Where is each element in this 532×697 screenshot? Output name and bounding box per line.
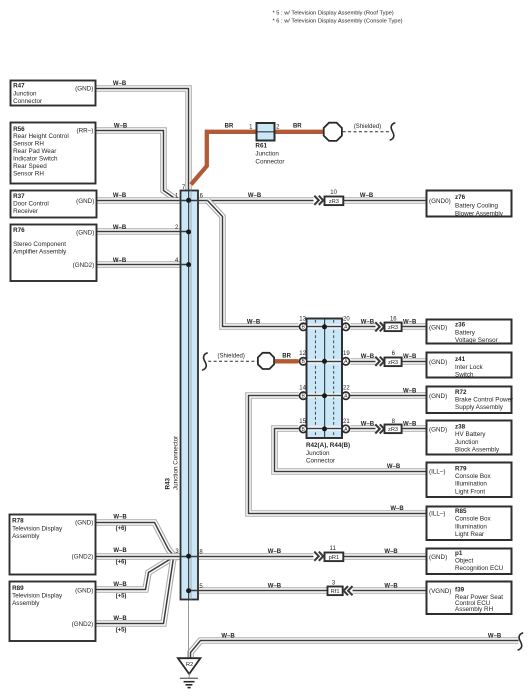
svg-text:Brake Control Power: Brake Control Power (455, 397, 513, 404)
svg-text:R79: R79 (455, 465, 467, 472)
wire pin 4 stub across R43 bus (180, 264, 189, 266)
svg-text:W–B: W–B (403, 422, 417, 428)
svg-text:zR3: zR3 (388, 325, 398, 331)
svg-text:* 5 : w/ Television Display As: * 5 : w/ Television Display Assembly (Ro… (273, 11, 394, 17)
junction on R42 bus (row 13/20) (322, 324, 327, 329)
svg-text:R78: R78 (12, 517, 24, 524)
component R89 Television Display Assembly (10, 582, 96, 642)
pin 22 of R42 (A side) (342, 392, 349, 399)
svg-text:(GND): (GND) (75, 587, 93, 594)
component z41 Inter Lock Switch (427, 353, 512, 379)
svg-text:R72: R72 (455, 389, 467, 396)
svg-text:11: 11 (330, 546, 337, 552)
component R78 Television Display Assembly (10, 515, 96, 575)
svg-text:(GND): (GND) (429, 324, 447, 331)
wire W-B from R42 pin 21 to zR3 connector (351, 425, 376, 432)
svg-text:Rf1: Rf1 (331, 589, 340, 595)
svg-text:(GND): (GND) (429, 426, 447, 433)
wire W-B from R89 (GND2) to R43 pin 3 (96, 557, 181, 624)
svg-text:W–B: W–B (387, 464, 401, 470)
svg-text:W–B: W–B (248, 193, 262, 199)
svg-text:Connector: Connector (255, 159, 284, 166)
svg-text:Assembly RH: Assembly RH (455, 606, 494, 613)
svg-text:(RR–): (RR–) (77, 128, 94, 135)
svg-text:(+5): (+5) (116, 627, 127, 633)
svg-text:Console Box: Console Box (455, 516, 492, 523)
svg-text:W–B: W–B (113, 616, 127, 622)
component R76 Stereo Component Amplifier Assembly (11, 225, 97, 282)
wire pin 3/8 row across R43 bus (180, 556, 199, 558)
component z38 HV Battery Junction Block Assembly (427, 421, 512, 455)
wire pin 5 stub across R43 bus (189, 590, 199, 592)
shield dashed line (343, 131, 390, 133)
wire W-B from R42 pin 20 to zR3 connector (351, 323, 376, 330)
svg-text:22: 22 (343, 386, 350, 392)
wire W-B from R42 pin 14 down to R85 (249, 396, 427, 514)
svg-text:W–B: W–B (384, 549, 398, 555)
svg-text:Junction: Junction (13, 90, 37, 97)
junction on R43 bus (pin 1/6 row) (186, 198, 191, 203)
svg-text:Junction Connector: Junction Connector (173, 436, 180, 490)
svg-text:(GND): (GND) (75, 520, 93, 527)
svg-text:R76: R76 (13, 227, 25, 234)
wire W-B from R42 pin 22 to R72 (351, 392, 427, 399)
svg-text:Illumination: Illumination (455, 481, 487, 488)
svg-text:W–B: W–B (113, 225, 127, 231)
svg-text:W–B: W–B (403, 320, 417, 326)
component p1 Object Recognition ECU (427, 549, 512, 575)
shield dashed line (left) (208, 360, 257, 362)
wire W-B from R56 (RR-) to R43 pin 1 (95, 131, 181, 201)
svg-text:W–B: W–B (361, 320, 375, 326)
svg-text:BR: BR (282, 353, 291, 359)
svg-text:Junction: Junction (255, 151, 279, 158)
svg-text:10: 10 (330, 190, 337, 196)
junction connector R42(A), R44(B) (307, 319, 343, 439)
wire BR from R61 pin 2 to shield drain (274, 130, 323, 134)
wire pin 1/6 row across R43 bus (180, 200, 199, 202)
svg-text:R42(A), R44(B): R42(A), R44(B) (306, 442, 350, 449)
svg-text:Stereo Component: Stereo Component (13, 241, 66, 248)
svg-text:* 6 : w/ Television Display As: * 6 : w/ Television Display Assembly (Co… (273, 19, 403, 25)
pin 12 of R42 (B side) (300, 358, 307, 365)
svg-text:Television Display: Television Display (12, 526, 63, 533)
wire W-B from R42 pin 19 to zR3 connector (351, 358, 376, 365)
svg-text:R2: R2 (186, 662, 193, 668)
component z76 Battery Cooling Blower Assembly (427, 191, 512, 218)
svg-text:Rear Speed: Rear Speed (13, 163, 47, 170)
svg-text:Supply Assembly: Supply Assembly (455, 404, 504, 411)
svg-text:R43: R43 (165, 477, 172, 489)
svg-text:W–B: W–B (390, 506, 404, 512)
junction on R43 bus (pin 2 row) (186, 229, 191, 234)
pin 20 of R42 (A side) (342, 323, 349, 330)
svg-text:Battery Cooling: Battery Cooling (455, 203, 499, 210)
wire W-B from R78 (GND) to R43 pin 3 (96, 523, 181, 557)
svg-text:13: 13 (299, 317, 306, 323)
wire W-B branch from pin 6 row down to R42 pin 13 (208, 201, 299, 327)
wire row across R42 bus at y=326.8 (299, 325, 351, 329)
svg-text:(GND2): (GND2) (72, 554, 94, 561)
svg-text:Rear Pad Wear: Rear Pad Wear (13, 148, 56, 155)
svg-text:W–B: W–B (113, 582, 127, 588)
svg-text:(ILL–): (ILL–) (429, 469, 445, 476)
svg-text:Connector: Connector (306, 458, 335, 465)
svg-text:Block Assembly: Block Assembly (455, 447, 500, 454)
wire W-B from zR3 connector to z76 (343, 197, 428, 204)
junction on R42 bus (row 12/19) (322, 359, 327, 364)
component R85 Console Box Illumination Light Rear (427, 507, 512, 541)
svg-text:Light Rear: Light Rear (455, 531, 484, 538)
svg-text:R37: R37 (13, 193, 25, 200)
svg-text:Indicator Switch: Indicator Switch (13, 155, 58, 162)
wire W-B from R43 pin 8 to pR1 connector (199, 553, 314, 560)
svg-text:(GND): (GND) (76, 198, 94, 205)
wire W-B from R37 (GND) to R43 pin 1 (97, 197, 181, 204)
wire W-B from R42 pin 15 down to R79 (275, 429, 427, 472)
svg-text:zR3: zR3 (329, 199, 339, 205)
wire squiggle break at right edge (518, 633, 524, 651)
ground stub below apex (188, 674, 190, 679)
svg-text:Assembly: Assembly (12, 600, 40, 607)
svg-text:Receiver: Receiver (13, 208, 38, 215)
svg-text:(+6): (+6) (116, 560, 127, 566)
svg-text:(Shielded): (Shielded) (354, 124, 381, 130)
wire W-B from R89 (GND) to R43 pin 3 (96, 557, 181, 590)
svg-text:W–B: W–B (403, 354, 417, 360)
wire W-B from zR3 connector to z38 (402, 425, 427, 432)
svg-text:Door Control: Door Control (13, 201, 49, 208)
wire W-B from R47 (GND) to R43 pin 7 bus (95, 89, 189, 192)
svg-text:Junction: Junction (306, 450, 330, 457)
svg-text:W–B: W–B (360, 193, 374, 199)
svg-text:Amplifier Assembly: Amplifier Assembly (13, 249, 67, 256)
svg-text:W–B: W–B (361, 422, 375, 428)
svg-text:12: 12 (299, 351, 306, 357)
svg-text:z41: z41 (455, 356, 466, 363)
svg-text:(+6): (+6) (116, 526, 127, 532)
wire W-B from pR1 connector to p1 (343, 553, 427, 560)
junction on R42 bus (row 15/21) (322, 426, 327, 431)
svg-text:W–B: W–B (114, 123, 128, 129)
svg-text:14: 14 (299, 386, 306, 392)
svg-text:Object: Object (455, 558, 473, 565)
svg-text:Sensor RH: Sensor RH (13, 140, 44, 147)
svg-text:Connector: Connector (13, 98, 42, 105)
svg-text:p1: p1 (455, 550, 463, 557)
svg-text:f39: f39 (455, 586, 465, 593)
svg-text:(ILL–): (ILL–) (429, 511, 445, 518)
component f39 Rear Power Seat Control ECU Assembly RH (427, 582, 512, 615)
junction on R43 bus (pin 3/8 row) (186, 554, 191, 559)
wire W-B from R76 (GND) to R43 pin 2 (97, 228, 181, 235)
svg-text:(GND2): (GND2) (72, 621, 94, 628)
wire W-B from R43 pin 5 to Rf1 connector (199, 587, 328, 594)
component R56 Rear Height Control Sensor RH etc. (11, 123, 96, 184)
svg-text:(GND): (GND) (75, 85, 93, 92)
junction connector R47 (11, 81, 96, 106)
svg-text:Inter Lock: Inter Lock (455, 364, 484, 371)
svg-text:21: 21 (343, 419, 350, 425)
wire from R43 bottom to ground R2 (188, 600, 190, 658)
svg-text:(GND): (GND) (429, 554, 447, 561)
svg-text:20: 20 (343, 317, 350, 323)
junction on R42 bus (row 14/22) (322, 393, 327, 398)
svg-text:W–B: W–B (221, 634, 235, 640)
svg-text:19: 19 (343, 351, 350, 357)
wire W-B trunk to body ground R2 (191, 641, 519, 658)
svg-text:z76: z76 (455, 194, 466, 201)
svg-text:(GND2): (GND2) (73, 262, 95, 269)
component R37 Door Control Receiver (11, 191, 97, 218)
shield squiggle break (left) (202, 353, 208, 371)
svg-text:W–B: W–B (268, 584, 282, 590)
wire BR from R43 pin 7 to R61 pin 1 (191, 132, 256, 185)
component R79 Console Box Illumination Light Front (427, 463, 512, 498)
junction on R43 bus (pin 4 row) (186, 262, 191, 267)
svg-text:R89: R89 (12, 585, 24, 592)
junction on R43 bus (pin 5 row) (186, 588, 191, 593)
svg-text:(GND): (GND) (429, 393, 447, 400)
svg-text:z38: z38 (455, 424, 466, 431)
svg-text:W–B: W–B (268, 549, 282, 555)
component z36 Battery Voltage Sensor (427, 320, 512, 344)
svg-text:W–B: W–B (403, 389, 417, 395)
svg-text:BR: BR (225, 123, 234, 129)
wire W-B from Rf1 connector to f39 (353, 587, 427, 594)
svg-text:Illumination: Illumination (455, 523, 487, 530)
svg-text:(+5): (+5) (116, 594, 127, 600)
svg-text:zR3: zR3 (388, 427, 398, 433)
svg-text:Console Box: Console Box (455, 473, 492, 480)
connector zR3 (pin 8) (375, 424, 379, 433)
svg-text:W–B: W–B (113, 193, 127, 199)
ground R2 (body ground) (178, 658, 201, 674)
svg-text:W–B: W–B (113, 81, 127, 87)
pin 21 of R42 (A side) (342, 425, 349, 432)
svg-text:Switch: Switch (455, 371, 474, 378)
svg-text:(GND): (GND) (76, 229, 94, 236)
svg-text:16: 16 (390, 317, 397, 323)
wire W-B from R43 pin 6 to zR3 connector (199, 197, 314, 204)
shield drain symbol (octagon, left) (258, 353, 274, 369)
svg-text:W–B: W–B (488, 634, 502, 640)
svg-text:Rear Height Control: Rear Height Control (13, 133, 69, 140)
wire row across R42 bus at y=395.7 (299, 394, 351, 398)
connector zR3 (pin 6) (375, 357, 379, 366)
ground hatching (180, 677, 198, 679)
R42 border redraw (307, 319, 343, 439)
svg-text:R85: R85 (455, 508, 467, 515)
wire row across R42 bus at y=428.9 (299, 427, 351, 431)
shield drain symbol (octagon) (324, 123, 342, 141)
pin 15 of R42 (B side) (300, 425, 307, 432)
svg-text:Television Display: Television Display (12, 593, 63, 600)
svg-text:W–B: W–B (113, 258, 127, 264)
svg-text:W–B: W–B (247, 320, 261, 326)
connector Rf1 (pin 3) (328, 587, 343, 596)
svg-text:Assembly: Assembly (12, 533, 40, 540)
svg-text:Battery: Battery (455, 329, 476, 336)
junction connector R61 (255, 123, 284, 166)
wire W-B from R78 (GND2) to R43 pin 3 (96, 553, 181, 560)
connector zR3 (pin 16) (375, 322, 379, 331)
svg-text:(Shielded): (Shielded) (218, 353, 245, 359)
pin 14 of R42 (B side) (300, 392, 307, 399)
svg-text:(GND): (GND) (429, 359, 447, 366)
svg-text:Recognition ECU: Recognition ECU (455, 565, 504, 572)
wire BR from shield drain to R42 pin 12 (275, 359, 299, 363)
wire W-B from R76 (GND2) to R43 pin 4 (97, 261, 181, 268)
svg-text:z36: z36 (455, 321, 466, 328)
connector zR3 (pin 10) (314, 196, 318, 205)
svg-text:W–B: W–B (361, 354, 375, 360)
svg-text:W–B: W–B (384, 584, 398, 590)
component R72 Brake Control Power Supply Assembly (427, 387, 514, 414)
connector pR1 (pin 11) (314, 552, 318, 561)
svg-text:Voltage Sensor: Voltage Sensor (455, 337, 498, 344)
pin 13 of R42 (B side) (300, 323, 307, 330)
wire pin 2 stub across R43 bus (180, 231, 189, 233)
shield squiggle break (390, 123, 396, 141)
svg-text:zR3: zR3 (388, 360, 398, 366)
svg-text:15: 15 (299, 419, 306, 425)
svg-text:(VGND): (VGND) (429, 588, 451, 595)
svg-text:(GND0): (GND0) (429, 198, 451, 205)
junction connector R43 (bus bar) (181, 191, 199, 600)
wire row across R42 bus at y=361.3 (299, 360, 351, 364)
svg-text:Light Front: Light Front (455, 488, 485, 495)
svg-text:BR: BR (293, 123, 302, 129)
wire W-B from zR3 connector to z36 (402, 323, 427, 330)
svg-text:HV Battery: HV Battery (455, 431, 486, 438)
svg-text:W–B: W–B (113, 514, 127, 520)
wire W-B from zR3 connector to z41 (402, 358, 427, 365)
svg-text:R47: R47 (13, 83, 25, 90)
svg-text:Sensor RH: Sensor RH (13, 170, 44, 177)
svg-text:W–B: W–B (113, 548, 127, 554)
svg-text:Junction: Junction (455, 439, 479, 446)
svg-text:pR1: pR1 (329, 555, 339, 561)
pin 19 of R42 (A side) (342, 358, 349, 365)
svg-text:R61: R61 (255, 143, 267, 150)
svg-text:Blower Assembly: Blower Assembly (455, 210, 504, 217)
